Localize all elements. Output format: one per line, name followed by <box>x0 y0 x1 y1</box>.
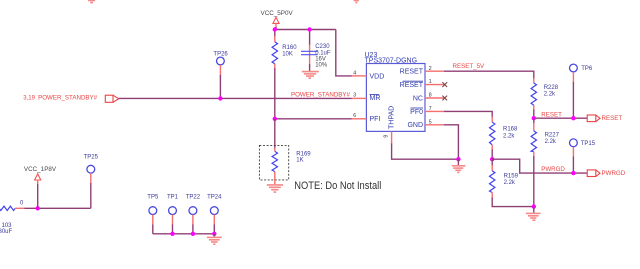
svg-text:1K: 1K <box>296 158 303 164</box>
svg-text:RESET_5V: RESET_5V <box>453 63 486 70</box>
wire: R168 bottom to PWRGD node <box>491 150 493 160</box>
svg-text:TP6: TP6 <box>581 66 593 72</box>
junction: TP24 on bus <box>212 232 216 236</box>
ground (below R169) <box>267 185 283 192</box>
ground (below C230) <box>302 72 319 79</box>
test point TP1 <box>167 195 179 226</box>
wire: VCC_5P0V rail top horizontal <box>275 29 336 31</box>
svg-text:TP15: TP15 <box>581 141 596 147</box>
junction: TP1 on bus <box>170 232 174 236</box>
test point TP15 <box>570 139 596 157</box>
svg-text:0.1uF: 0.1uF <box>315 50 331 56</box>
junction: PWRGD node (R168/R159) <box>490 157 494 161</box>
svg-text:R227: R227 <box>545 133 560 139</box>
wire: TP24 drop <box>213 225 215 234</box>
svg-text:3,19: 3,19 <box>23 96 35 102</box>
svg-text:R159: R159 <box>504 173 519 179</box>
wire: TP5 drop to bus <box>152 225 154 234</box>
svg-text:RESET: RESET <box>602 115 623 122</box>
svg-text:TP25: TP25 <box>84 154 99 160</box>
svg-text:RESET: RESET <box>400 69 424 76</box>
off-page input connector POWER_STANDBY# <box>23 95 118 103</box>
svg-text:PF0: PF0 <box>410 109 423 116</box>
wire: vcc rail drop from power symbol <box>275 27 277 30</box>
svg-text:9: 9 <box>383 135 389 138</box>
junction: TP15 on PWRGD <box>571 171 575 175</box>
test point TP22 <box>186 195 201 226</box>
capacitor C103 330uF labels (cut off at edge) <box>0 223 13 235</box>
junction: TP6 on RESET <box>571 116 575 120</box>
junction: TP22 on bus <box>191 232 195 236</box>
wire: 0 ohm to TP25 <box>24 207 91 209</box>
svg-text:7: 7 <box>429 106 432 112</box>
svg-text:VCC_1P8V: VCC_1P8V <box>24 166 57 173</box>
wire: R160 top connection <box>274 30 276 39</box>
ground (pin5/pin9) <box>452 166 466 173</box>
svg-text:TP22: TP22 <box>186 195 201 201</box>
svg-text:POWER_STANDBY#: POWER_STANDBY# <box>38 95 98 102</box>
pin 6 (PFI) <box>352 113 367 119</box>
svg-text:POWER_STANDBY#: POWER_STANDBY# <box>291 91 351 98</box>
svg-text:TP1: TP1 <box>167 195 179 201</box>
resistor 0 ohm (left edge, cut off) <box>0 201 24 211</box>
wire: pin 2 to R228 <box>444 71 534 79</box>
wire: bus to ground symbol <box>213 234 215 237</box>
wire: R227 bottom to ground junction (crosses PWRGD, no dot) <box>533 156 535 207</box>
wire: VCC_1P8V drop <box>37 184 39 208</box>
wire: TP6 drop <box>572 82 574 118</box>
svg-text:PFI: PFI <box>370 116 381 123</box>
power symbol VCC_1P8V <box>24 166 57 184</box>
wire: TP1 drop <box>172 225 174 234</box>
wire: PWRGD node down to R159 <box>491 159 493 166</box>
test point TP25 <box>84 154 99 183</box>
svg-text:1: 1 <box>429 79 432 85</box>
svg-text:GND: GND <box>407 122 423 129</box>
wire: rail corner to VDD pin 4 <box>336 30 352 76</box>
junction: R160/R169/PFI node <box>273 117 277 121</box>
svg-text:2.2k: 2.2k <box>545 139 557 145</box>
wire: test point ground bus <box>153 233 215 235</box>
ground (test points) <box>207 237 222 244</box>
wire: TP25 drop <box>90 183 92 208</box>
junction: ground net <box>456 157 460 161</box>
wire: pin 7 to R168 <box>444 111 492 117</box>
partial ground (top left, cut off) <box>88 1 95 3</box>
pin 2 (RESET out) <box>425 66 445 72</box>
junction: rail at C230 <box>307 27 311 31</box>
svg-text:10%: 10% <box>315 62 328 68</box>
svg-text:PWRGD: PWRGD <box>602 170 626 177</box>
off-page output connector RESET <box>587 115 622 122</box>
wire: PWRGD node route to connector <box>492 159 587 173</box>
pin 4 (VDD) <box>352 71 367 77</box>
svg-text:6: 6 <box>353 113 356 119</box>
svg-text:30uF: 30uF <box>0 229 13 235</box>
svg-text:R160: R160 <box>282 45 297 51</box>
partial ground (top middle, cut off) <box>354 1 359 3</box>
resistor R168 2.2k <box>490 117 519 151</box>
svg-text:R169: R169 <box>296 151 311 157</box>
svg-text:R228: R228 <box>544 85 559 91</box>
wire: TP22 drop <box>192 225 194 234</box>
wire: PFI node down to R169 <box>274 119 276 149</box>
wire: pin 9 down to ground net <box>392 144 459 160</box>
pin 9 (THPAD) <box>383 131 391 144</box>
wire: PFI node to pin 6 <box>275 118 352 120</box>
svg-text:10K: 10K <box>282 52 293 58</box>
svg-text:2.2k: 2.2k <box>504 180 516 186</box>
wire: TP15 drop <box>572 157 574 174</box>
svg-text:VCC_5P0V: VCC_5P0V <box>261 10 294 17</box>
wire: junction to ground symbol <box>533 207 535 213</box>
svg-text:MR: MR <box>370 95 381 102</box>
pin 7 (PF0 out) <box>425 106 445 112</box>
svg-text:R168: R168 <box>503 126 518 132</box>
pin 5 (GND) <box>425 119 445 125</box>
svg-text:3: 3 <box>353 92 356 98</box>
wire: R228 to RESET node <box>533 110 535 119</box>
resistor R159 2.2k <box>490 165 519 199</box>
svg-text:5: 5 <box>429 119 432 125</box>
junction: R159/R227 ground <box>532 204 536 208</box>
junction: TP26 on POWER_STANDBY# <box>218 96 222 100</box>
svg-text:103: 103 <box>2 223 13 229</box>
svg-text:TP5: TP5 <box>147 195 159 201</box>
op-amp/supervisor U23 TPS3707-DGNG <box>365 52 426 131</box>
test point TP26 <box>213 52 228 76</box>
svg-text:8: 8 <box>429 93 432 99</box>
resistor R160 10K <box>272 36 297 70</box>
wire: R160 bottom down to PFI node (crosses MR wire, no junction) <box>274 68 276 119</box>
svg-text:NC: NC <box>413 95 423 102</box>
svg-text:2.2k: 2.2k <box>544 92 556 98</box>
resistor R228 2.2k <box>531 78 559 111</box>
capacitor C230 0.1uF 16V 10% <box>301 44 331 69</box>
resistor R169 1K (do not install, dashed box) <box>259 145 311 184</box>
junction: VCC_1P8V tap <box>36 206 40 210</box>
off-page output connector PWRGD <box>587 170 626 177</box>
svg-text:RESET: RESET <box>400 82 424 89</box>
wire: RESET node to connector <box>534 117 588 119</box>
resistor R227 2.2k <box>531 123 560 157</box>
wire: C230 top connection <box>309 30 311 46</box>
pin 8 (NC, no connect) <box>425 93 447 101</box>
svg-text:NOTE: Do Not Install: NOTE: Do Not Install <box>294 180 381 192</box>
svg-text:TP24: TP24 <box>207 195 222 201</box>
svg-text:C230: C230 <box>315 44 330 50</box>
svg-text:THPAD: THPAD <box>388 106 395 129</box>
svg-text:2: 2 <box>429 66 432 72</box>
junction: RESET node <box>532 116 536 120</box>
wire: POWER_STANDBY# to MR pin 3 <box>119 97 352 99</box>
wire: junction to ground symbol <box>457 159 459 165</box>
test point TP5 <box>147 195 159 226</box>
wire: TP26 drop to POWER_STANDBY# <box>219 75 221 98</box>
svg-text:VDD: VDD <box>370 73 385 80</box>
power symbol VCC_5P0V <box>261 10 294 28</box>
svg-text:2.2k: 2.2k <box>503 134 515 140</box>
test point TP6 <box>570 64 593 82</box>
svg-text:PWRGD: PWRGD <box>541 166 565 173</box>
pin 1 (RESET, no connect) <box>425 79 447 87</box>
test point TP24 <box>207 195 222 226</box>
junction: rail at R160 <box>273 27 277 31</box>
wire: R159 bottom to ground junction <box>492 198 534 207</box>
ground (R159/R227) <box>526 213 541 220</box>
wire: pin 5 (GND) to ground net <box>444 125 458 159</box>
wire: R227 from RESET node <box>533 118 535 124</box>
pin 3 (MR) <box>352 92 367 98</box>
svg-text:4: 4 <box>353 71 356 77</box>
wire: C230 to ground <box>309 64 311 71</box>
